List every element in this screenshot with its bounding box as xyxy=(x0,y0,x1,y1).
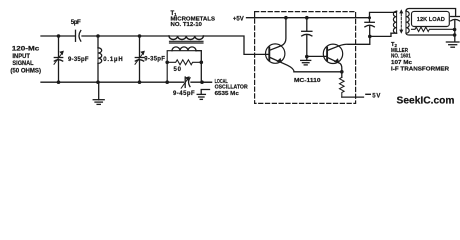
transistor Q2 emitter xyxy=(328,58,342,78)
node top-left junction xyxy=(57,34,61,38)
svg-text:5V: 5V xyxy=(372,94,380,100)
transistor Q1 base bar xyxy=(268,47,270,60)
node T1 secondary right bottom xyxy=(200,80,204,84)
wire T2 secondary top to load xyxy=(406,9,456,17)
transistor Q1 collector xyxy=(270,18,286,51)
svg-text:INPUT: INPUT xyxy=(12,54,30,60)
node C2 top xyxy=(138,34,142,38)
transformer T1 secondary winding xyxy=(172,47,196,51)
wire top rail left segment xyxy=(41,35,75,37)
node C5 top xyxy=(368,16,371,19)
wire +5V rail xyxy=(247,17,370,19)
node load bottom xyxy=(453,33,457,37)
svg-text:MC-1110: MC-1110 xyxy=(294,78,321,84)
wire Q2 base xyxy=(307,55,327,57)
wire -5V xyxy=(342,96,364,98)
wire top rail right segment to corner and down to mixer base xyxy=(203,36,268,54)
node 50 left xyxy=(165,61,169,65)
svg-text:(50 OHMS): (50 OHMS) xyxy=(10,69,41,75)
box 12K LOAD xyxy=(412,11,450,26)
svg-text:50: 50 xyxy=(174,67,182,73)
local oscillator stub bottom + ground G2 xyxy=(201,90,209,95)
svg-text:120-Mc: 120-Mc xyxy=(12,47,40,53)
dashed box MC-1110 xyxy=(255,12,356,104)
capacitor 5pF plates xyxy=(75,30,77,41)
ground G1 xyxy=(98,82,100,100)
wire Q1 emitter to Q2 emitter xyxy=(294,71,342,73)
capacitor C6 load xyxy=(451,16,460,18)
transformer T1 primary winding xyxy=(169,36,203,40)
node 50 right xyxy=(200,61,204,65)
node Q2 emitter junction xyxy=(340,70,344,74)
transformer T2 primary winding xyxy=(393,11,396,33)
ground G3 xyxy=(306,57,308,61)
svg-text:9-35pF: 9-35pF xyxy=(144,56,165,62)
capacitor C4 bypass xyxy=(306,18,308,31)
wire T2 primary bottom xyxy=(370,33,391,36)
svg-text:NO. T12-10: NO. T12-10 xyxy=(171,22,202,28)
node L1 bottom xyxy=(96,80,100,84)
node collector Q1 rail xyxy=(284,16,288,20)
resistor 12K zigzag xyxy=(412,27,455,31)
svg-text:12K LOAD: 12K LOAD xyxy=(417,17,445,23)
node C5 bottom / collector xyxy=(368,35,372,39)
transformer T2 secondary winding xyxy=(406,11,409,33)
variable capacitor C2 9-35pF xyxy=(139,36,141,57)
svg-text:9-45pF: 9-45pF xyxy=(173,91,195,97)
resistor 50 xyxy=(167,60,201,65)
node L1 top xyxy=(96,34,100,38)
node T1 secondary left bottom xyxy=(165,80,169,84)
transistor Q2 circle xyxy=(323,44,342,63)
wire T2 secondary bottom to load xyxy=(406,33,455,35)
svg-text:SIGNAL: SIGNAL xyxy=(12,61,34,67)
svg-text:SeekIC.com: SeekIC.com xyxy=(397,96,455,107)
wire top rail mid segment xyxy=(82,35,169,37)
svg-text:5pF: 5pF xyxy=(71,19,81,26)
wire bottom rail xyxy=(41,81,184,83)
ground G5 xyxy=(446,41,459,43)
transistor Q2 base bar xyxy=(326,48,328,61)
svg-text:OSCILLATOR: OSCILLATOR xyxy=(215,85,248,91)
variable capacitor C3 9-45pF series xyxy=(184,77,186,87)
svg-text:+5V: +5V xyxy=(233,17,244,23)
svg-text:I-F TRANSFORMER: I-F TRANSFORMER xyxy=(391,66,449,72)
node Q2 base / cap bottom xyxy=(305,55,309,59)
variable capacitor C1 9-35pF xyxy=(58,36,60,57)
wire T2 rail riser xyxy=(370,12,395,17)
node C2 bottom xyxy=(138,80,142,84)
transistor Q2 collector xyxy=(328,36,370,50)
node load top xyxy=(453,28,457,32)
capacitor C5 across T2 primary xyxy=(369,18,371,22)
node bypass cap rail xyxy=(305,16,309,20)
wire bottom rail after 9-45pF cap xyxy=(191,81,212,83)
transformer T2 tuning arrow xyxy=(400,14,402,30)
resistor R emitter xyxy=(340,77,345,97)
local oscillator stub top xyxy=(202,81,212,83)
transformer T1 core lines xyxy=(170,40,204,42)
inductor L1 0.1uH xyxy=(97,36,99,48)
label -5V minus sign xyxy=(366,93,370,95)
transistor Q1 emitter xyxy=(270,57,294,71)
svg-text:0.1µH: 0.1µH xyxy=(103,57,123,63)
svg-text:NO. 1601: NO. 1601 xyxy=(391,54,411,60)
svg-text:6535 Mc: 6535 Mc xyxy=(215,91,239,97)
svg-text:9-35pF: 9-35pF xyxy=(68,57,89,63)
node bottom-left junction xyxy=(57,80,61,84)
transistor Q1 circle xyxy=(266,44,285,63)
svg-text:107 Mc: 107 Mc xyxy=(391,60,412,66)
